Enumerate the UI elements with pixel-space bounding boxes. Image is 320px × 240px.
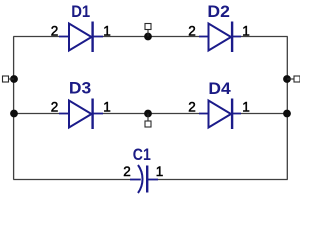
capacitor C1 [130,165,158,193]
port right [287,76,300,82]
wire middle row right of D4 [241,113,287,115]
wire middle row D3 to D4 [103,113,199,115]
diode D2 [199,22,241,53]
svg-text:1: 1 [242,100,250,115]
junction right middle-row [283,110,291,118]
svg-text:D2: D2 [207,2,230,21]
wire bottom row right of C1 [158,179,288,181]
svg-text:2: 2 [188,24,196,39]
diode D4 [199,99,241,130]
diode D1 [59,22,103,53]
svg-text:1: 1 [103,100,111,115]
wire bottom row left of C1 [13,179,130,181]
port top middle [145,24,151,37]
junction left middle-row [10,110,18,118]
svg-text:1: 1 [242,24,250,39]
svg-text:1: 1 [103,24,111,39]
svg-text:D3: D3 [69,79,91,98]
port bottom middle [145,114,151,128]
wire top row left of D1 [13,36,59,38]
wire top row D1 to D2 [103,36,199,38]
svg-text:D4: D4 [208,79,231,98]
wire top row right of D2 [241,36,288,38]
svg-text:2: 2 [51,100,59,115]
wire right vertical [286,37,288,180]
svg-text:D1: D1 [71,2,90,21]
junction at left port node [10,75,18,83]
svg-text:1: 1 [156,164,164,179]
wire middle row left of D3 [14,113,59,115]
diode D3 [59,99,103,130]
svg-text:C1: C1 [133,145,151,164]
wire left vertical [13,37,15,180]
svg-text:2: 2 [123,164,131,179]
port left [3,76,15,82]
junction at right port node [283,75,291,83]
junction top middle node [144,33,152,41]
svg-text:2: 2 [188,100,196,115]
junction middle-row middle node [144,110,152,118]
svg-text:2: 2 [51,24,59,39]
